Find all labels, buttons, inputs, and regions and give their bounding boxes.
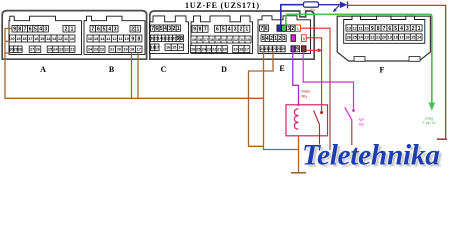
- connector D pin row 1 pins 9-7: [192, 25, 208, 32]
- svg-text:3: 3: [114, 27, 117, 33]
- svg-text:21: 21: [217, 48, 221, 52]
- svg-text:7: 7: [204, 27, 207, 33]
- svg-text:4: 4: [39, 27, 42, 33]
- svg-text:10: 10: [70, 37, 74, 41]
- svg-text:1: 1: [274, 36, 277, 42]
- main relay switch lower terminal: [319, 125, 321, 150]
- connector D pin row 1 pins 6-1: [215, 25, 250, 32]
- wire red from E row2 red pin to main relay switch: [306, 38, 321, 111]
- ignition switch contact dot: [352, 109, 355, 112]
- connector C pin row 3 pins 16-14: [165, 44, 184, 51]
- wire magenta from E row2 magenta pin to ignition switch: [303, 52, 353, 110]
- svg-text:5: 5: [262, 36, 265, 42]
- svg-text:Teletehnika: Teletehnika: [302, 139, 440, 171]
- connector E pin row 3 pin 9: [295, 46, 299, 53]
- connector A pin row 3 pins 30-28: [9, 46, 22, 53]
- ECU case block containing connectors A and B: [2, 11, 146, 60]
- connector E pin row 2 red pin digit: [303, 37, 305, 41]
- svg-text:22: 22: [100, 48, 104, 52]
- svg-text:19: 19: [192, 38, 196, 42]
- svg-text:6: 6: [265, 26, 268, 32]
- svg-text:18: 18: [130, 48, 134, 52]
- svg-text:15: 15: [172, 46, 176, 50]
- svg-text:15: 15: [411, 36, 415, 40]
- connector C pin row 2 pins 16-8: [150, 35, 183, 42]
- wire brown relay coil to ground: [298, 136, 300, 173]
- svg-text:9: 9: [303, 37, 305, 41]
- svg-text:8: 8: [138, 36, 141, 42]
- fuse label: [309, 8, 316, 12]
- ECU case block containing connectors C, D and E: [150, 11, 314, 59]
- svg-text:19: 19: [233, 48, 237, 52]
- svg-text:1: 1: [297, 27, 299, 31]
- connector E pin row 3 maroon pin: [302, 46, 307, 52]
- wire dark red continuation down to bottom: [329, 60, 331, 151]
- svg-text:25: 25: [48, 48, 52, 52]
- svg-text:9: 9: [131, 36, 134, 42]
- svg-text:9: 9: [13, 27, 16, 33]
- connector D shroud: [191, 16, 253, 54]
- svg-text:1: 1: [177, 26, 180, 32]
- connector E label: [279, 64, 284, 73]
- ignition switch blade: [345, 107, 352, 120]
- svg-text:20: 20: [382, 36, 386, 40]
- connector C pin row 3 pins 18-17: [150, 44, 159, 51]
- svg-text:7: 7: [91, 27, 94, 33]
- svg-text:13: 13: [52, 37, 56, 41]
- label Main Rly: [302, 89, 311, 99]
- svg-text:21: 21: [376, 36, 380, 40]
- svg-text:26: 26: [191, 48, 195, 52]
- svg-text:23: 23: [207, 48, 211, 52]
- svg-text:Rly: Rly: [302, 93, 308, 98]
- connector F case outline: [337, 16, 430, 61]
- svg-text:12: 12: [112, 37, 116, 41]
- svg-text:17: 17: [204, 38, 208, 42]
- svg-text:2: 2: [240, 27, 243, 33]
- svg-text:4: 4: [108, 27, 111, 33]
- svg-text:23: 23: [94, 48, 98, 52]
- connector B shroud: [84, 16, 145, 54]
- battery terminal bar right side: [437, 138, 447, 140]
- svg-text:A: A: [40, 65, 46, 74]
- svg-text:22: 22: [65, 48, 69, 52]
- svg-text:2: 2: [270, 36, 273, 42]
- svg-text:17: 17: [399, 36, 403, 40]
- fuse symbol: [304, 2, 319, 7]
- svg-text:C: C: [161, 65, 167, 74]
- connector A label: [40, 65, 46, 74]
- ground symbol under relay coil: [291, 172, 306, 174]
- svg-text:15: 15: [40, 37, 44, 41]
- ignition switch arrow symbol: [333, 6, 339, 13]
- svg-text:18: 18: [239, 48, 243, 52]
- svg-text:5: 5: [103, 27, 106, 33]
- svg-text:Diag: Diag: [425, 117, 432, 121]
- svg-text:26: 26: [36, 48, 40, 52]
- svg-text:15: 15: [94, 37, 98, 41]
- connector C shroud: [150, 16, 189, 54]
- svg-text:6: 6: [29, 27, 32, 33]
- main relay K1 box: [286, 105, 328, 136]
- connector E pin row 2 magenta pin: [291, 35, 295, 42]
- svg-text:18: 18: [198, 38, 202, 42]
- watermark Teletehnika: [302, 139, 440, 171]
- connector C pin row 1 pins 7-1: [151, 25, 181, 32]
- svg-text:E: E: [279, 64, 284, 73]
- ignition switch lower terminal: [351, 121, 353, 145]
- connector B pin row 1 pins 2-1: [130, 26, 140, 33]
- wire brown ground bus from connector A pins down left side and along bottom: [5, 29, 264, 99]
- connector D pin row 3 pins 26-20: [191, 46, 228, 53]
- svg-text:F: F: [380, 66, 385, 75]
- connector F mounting notch right: [409, 57, 420, 62]
- connector A pin row 2 pins 20-10: [10, 35, 75, 42]
- connector B pin row 2 pins 16-8: [87, 35, 142, 42]
- svg-text:12: 12: [234, 38, 238, 42]
- svg-text:2: 2: [291, 26, 294, 32]
- svg-text:19: 19: [16, 37, 20, 41]
- svg-text:10: 10: [364, 26, 368, 30]
- connector B pin row 3 pins 24-22: [87, 46, 105, 53]
- connector A shroud: [9, 16, 82, 54]
- svg-text:F pin 13: F pin 13: [423, 121, 436, 125]
- wire brown from E row3 pin down to relay coil ground node: [264, 52, 299, 150]
- svg-text:6: 6: [216, 27, 219, 33]
- wire green from E row1 green pin to diagnostic arrow: [286, 14, 432, 103]
- svg-text:11: 11: [359, 26, 363, 30]
- svg-text:7: 7: [24, 27, 27, 33]
- svg-text:11: 11: [118, 37, 122, 41]
- wire brown stub to A pin 30: [5, 52, 10, 54]
- connector F label: [380, 66, 385, 75]
- main relay switch blade: [314, 110, 320, 124]
- wire red short arrow from E row3 pin: [306, 48, 322, 52]
- svg-text:12: 12: [58, 37, 62, 41]
- wire brown from B pin 17 to ground bus: [137, 53, 139, 98]
- svg-text:20: 20: [117, 48, 121, 52]
- svg-text:3: 3: [283, 36, 286, 42]
- svg-text:6: 6: [388, 26, 391, 32]
- svg-text:13: 13: [347, 26, 351, 30]
- connector F shroud: [344, 16, 425, 43]
- svg-text:3: 3: [287, 26, 290, 32]
- watermark Teletehnika shadow: [305, 141, 443, 173]
- connector E pin row 1 red pin digit: [297, 27, 299, 31]
- svg-text:4: 4: [266, 36, 269, 42]
- svg-text:4: 4: [228, 27, 231, 33]
- svg-text:18: 18: [22, 37, 26, 41]
- connector B pin row 1 pins 7-3: [90, 26, 118, 33]
- connector E pin row 1 green pin: [282, 25, 287, 31]
- svg-text:16: 16: [405, 36, 409, 40]
- svg-text:17: 17: [28, 37, 32, 41]
- svg-text:19: 19: [281, 47, 285, 51]
- svg-text:27: 27: [30, 48, 34, 52]
- svg-text:18: 18: [394, 36, 398, 40]
- svg-text:19: 19: [388, 36, 392, 40]
- svg-text:16: 16: [166, 46, 170, 50]
- svg-text:3: 3: [234, 27, 237, 33]
- svg-text:22: 22: [212, 48, 216, 52]
- svg-text:7: 7: [260, 26, 263, 32]
- svg-text:22: 22: [370, 36, 374, 40]
- svg-text:21: 21: [70, 48, 74, 52]
- connector A pin row 1 pins 9-3: [12, 26, 48, 33]
- svg-text:7: 7: [383, 26, 386, 32]
- svg-text:15A: 15A: [309, 8, 316, 12]
- svg-text:9: 9: [371, 26, 374, 32]
- svg-text:12: 12: [353, 26, 357, 30]
- svg-text:25: 25: [353, 36, 357, 40]
- title label 1UZ-FE (UZS171): [185, 1, 259, 10]
- connector B pin row 3 pins 21-17: [109, 46, 142, 53]
- svg-text:5: 5: [34, 27, 37, 33]
- connector E pin row 2 red pin: [302, 35, 307, 42]
- svg-text:11: 11: [64, 37, 68, 41]
- svg-text:1UZ-FE (UZS171): 1UZ-FE (UZS171): [185, 1, 259, 10]
- svg-text:8: 8: [377, 26, 380, 32]
- svg-text:19: 19: [123, 48, 127, 52]
- svg-text:16: 16: [210, 38, 214, 42]
- connector F pin row 2 pins 26-14: [346, 34, 422, 40]
- svg-text:6: 6: [97, 27, 100, 33]
- svg-text:9: 9: [296, 47, 299, 53]
- connector E pin row 1 blue pin: [277, 25, 281, 31]
- svg-text:17: 17: [155, 46, 159, 50]
- connector D pin row 2 pins 19-10: [191, 36, 251, 43]
- diode D1 blue: [340, 1, 348, 8]
- svg-text:1: 1: [137, 27, 140, 33]
- svg-text:15: 15: [216, 38, 220, 42]
- wire brown from E row3 pin jog left and down: [249, 52, 274, 147]
- svg-text:D: D: [221, 65, 227, 74]
- wire blue from E row1 blue pin up to fuse: [281, 5, 304, 26]
- svg-text:11: 11: [240, 38, 244, 42]
- connector A pin row 3 pins 25-21: [47, 46, 75, 53]
- svg-text:13: 13: [228, 38, 232, 42]
- wire red from E row1 red pin right and down: [301, 28, 330, 59]
- svg-text:2: 2: [279, 36, 282, 42]
- svg-text:2: 2: [131, 27, 134, 33]
- connector E pin row 2 pins 5-3: [261, 35, 286, 42]
- svg-text:20: 20: [223, 48, 227, 52]
- svg-text:10: 10: [124, 37, 128, 41]
- svg-text:7: 7: [151, 26, 154, 32]
- connector D label: [221, 65, 227, 74]
- svg-text:5: 5: [394, 26, 397, 32]
- svg-text:2: 2: [173, 26, 176, 32]
- connector B label: [109, 65, 115, 74]
- svg-text:10: 10: [246, 38, 250, 42]
- svg-text:2: 2: [65, 27, 68, 33]
- connector D pin row 3 pins 19-17: [233, 46, 250, 53]
- svg-text:8: 8: [18, 27, 21, 33]
- svg-text:8: 8: [199, 27, 202, 33]
- svg-text:28: 28: [18, 48, 22, 52]
- svg-text:B: B: [109, 65, 115, 74]
- connector E pin row 3 violet pin: [291, 46, 295, 52]
- main relay coil: [294, 109, 298, 129]
- svg-text:23: 23: [59, 48, 63, 52]
- svg-text:4: 4: [400, 26, 403, 32]
- svg-text:1: 1: [418, 26, 421, 32]
- svg-text:16: 16: [88, 37, 92, 41]
- connector A pin row 3 pins 27-26: [29, 46, 41, 53]
- svg-text:17: 17: [245, 48, 249, 52]
- svg-text:13: 13: [106, 37, 110, 41]
- main relay switch contact dot: [320, 111, 323, 114]
- label Diag green: [425, 117, 432, 121]
- connector E pin row 1 pins 3-2: [287, 25, 295, 32]
- svg-text:1: 1: [71, 27, 74, 33]
- svg-text:16: 16: [34, 37, 38, 41]
- label F pin 13 green: [423, 121, 436, 125]
- connector E shroud: [258, 16, 311, 54]
- wire violet from E row3 violet pin down to relay coil: [293, 52, 299, 107]
- svg-text:17: 17: [137, 48, 141, 52]
- svg-text:6: 6: [156, 26, 159, 32]
- connector E pin row 3 pins 24-19: [260, 46, 285, 52]
- connector F pin row 1 pins 13-1: [346, 25, 422, 32]
- svg-text:26: 26: [347, 36, 351, 40]
- svg-text:Sw: Sw: [359, 122, 365, 127]
- connector C label: [161, 65, 167, 74]
- svg-text:5: 5: [222, 27, 225, 33]
- svg-text:20: 20: [10, 37, 14, 41]
- svg-text:2: 2: [412, 26, 415, 32]
- wire brown stub to A pin 20: [5, 40, 10, 42]
- svg-text:9: 9: [193, 27, 196, 33]
- svg-text:1: 1: [245, 27, 248, 33]
- connector E pin row 1 red pin: [295, 25, 300, 31]
- svg-text:3: 3: [44, 27, 47, 33]
- svg-text:3: 3: [168, 26, 171, 32]
- connector F mounting notch left: [354, 57, 365, 62]
- connector E pin row 1 pins 7-6: [260, 25, 269, 32]
- label Ign Sw: [359, 117, 365, 127]
- wire brown from B pin 18 to ground bus: [131, 53, 133, 98]
- svg-text:23: 23: [364, 36, 368, 40]
- svg-text:9: 9: [177, 36, 180, 42]
- wire blue from fuse to diode: [319, 4, 340, 6]
- svg-text:4: 4: [164, 26, 167, 32]
- wire dark red from diode to right edge and down to battery terminal: [348, 5, 446, 138]
- connector A pin row 1 pins 2-1: [63, 26, 75, 33]
- svg-text:25: 25: [196, 48, 200, 52]
- svg-text:3: 3: [406, 26, 409, 32]
- svg-text:21: 21: [110, 48, 114, 52]
- green arrowhead diagnostic: [428, 103, 435, 111]
- svg-text:8: 8: [180, 36, 183, 42]
- svg-text:5: 5: [160, 26, 163, 32]
